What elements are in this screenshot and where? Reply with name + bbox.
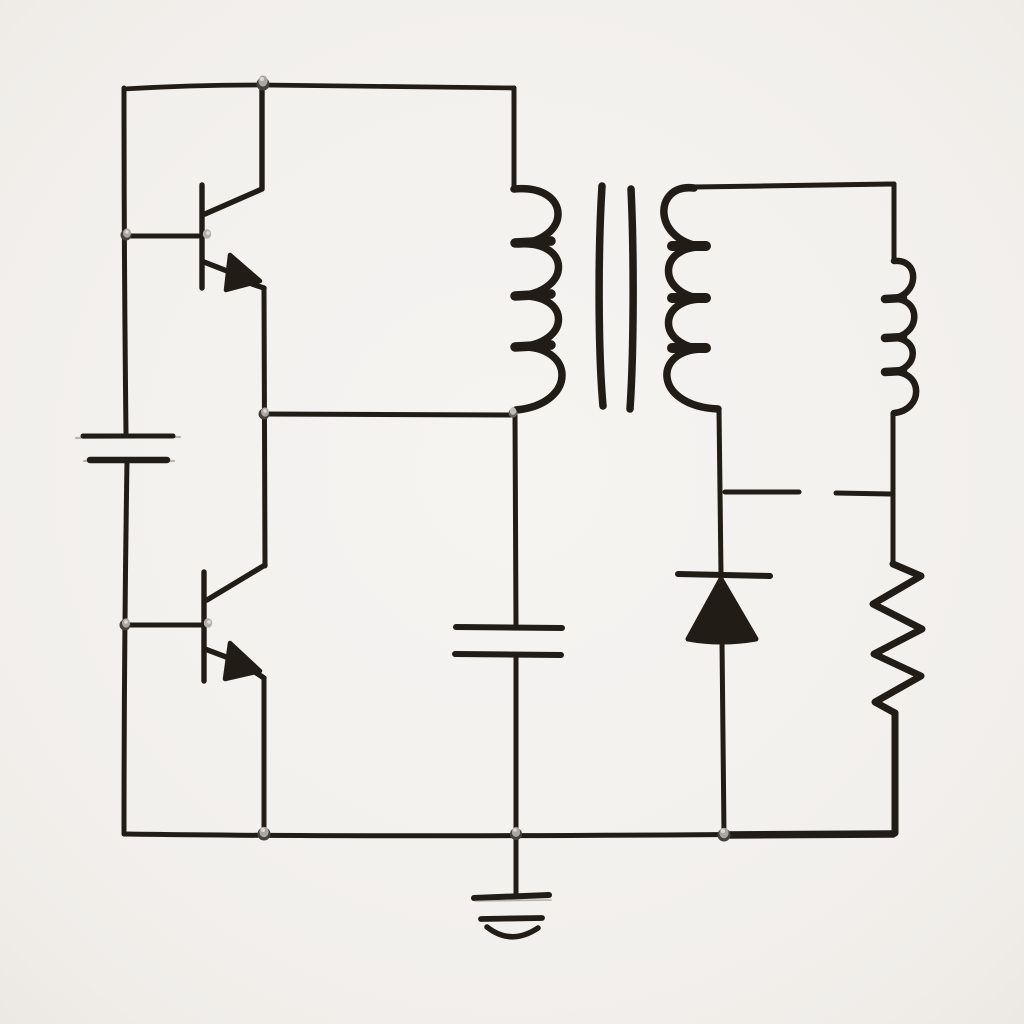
inductor L1 bbox=[891, 261, 916, 413]
junction at left rail and Q1 base bbox=[121, 228, 132, 240]
wire secondary top to right rail bbox=[694, 184, 894, 187]
wire bottom rail bbox=[124, 833, 895, 836]
transformer T1 secondary winding bbox=[664, 188, 718, 409]
wire Q2 base bbox=[125, 623, 203, 628]
wire transformer primary top lead bbox=[512, 88, 517, 189]
junction at bottom rail and diode branch bbox=[718, 828, 731, 842]
wire diode branch lower bbox=[722, 641, 724, 834]
capacitor C1 bbox=[455, 627, 562, 655]
wire left rail upper bbox=[124, 88, 126, 433]
junction at bottom rail and Q2 emitter bbox=[258, 827, 271, 841]
junction at Q2 base bar bbox=[204, 618, 212, 628]
inductor L1 notch blobs bbox=[885, 298, 903, 372]
wire right rail lower bbox=[892, 713, 899, 833]
junction at Q1 base bar bbox=[203, 229, 211, 239]
junction at top rail and Q1 collector bbox=[257, 76, 270, 91]
transformer T1 core bbox=[599, 186, 633, 409]
wire right rail middle bbox=[891, 413, 896, 564]
wire left rail lower bbox=[124, 461, 127, 834]
wire Q2 emitter vertical bbox=[262, 678, 267, 834]
junction at middle wire and primary bottom bbox=[509, 407, 518, 417]
diode D1 bbox=[678, 574, 770, 642]
junction at middle wire and Q1/Q2 vertical bbox=[259, 407, 270, 419]
wire diode branch upper bbox=[719, 409, 721, 574]
wire Q1 emitter to Q2 collector vertical bbox=[264, 289, 265, 566]
wire ground stem bbox=[514, 834, 519, 896]
wire top rail bbox=[124, 85, 514, 89]
battery B1 bbox=[76, 436, 180, 461]
junction at bottom rail and ground stem bbox=[510, 827, 522, 840]
wire right rail upper bbox=[892, 184, 897, 261]
wire capacitor C1 top lead bbox=[515, 415, 516, 625]
wire bottom rail right thicker overdraw bbox=[724, 834, 893, 835]
transformer T1 primary winding bbox=[514, 189, 562, 410]
resistor R1 bbox=[873, 564, 922, 713]
transformer T1 primary notch blobs bbox=[515, 241, 551, 347]
transformer T1 secondary notch blobs bbox=[672, 246, 706, 348]
wire capacitor C2 left segment bbox=[725, 490, 799, 495]
wire Q1 base bbox=[124, 234, 201, 239]
wire middle horizontal bbox=[264, 414, 512, 415]
transistor Q2 bbox=[204, 565, 265, 681]
ground bbox=[474, 895, 551, 937]
transistor Q1 bbox=[202, 86, 264, 290]
junction at left rail and Q2 base bbox=[120, 618, 131, 630]
wire capacitor C1 bottom lead bbox=[514, 655, 519, 834]
wire capacitor C2 right segment bbox=[836, 493, 890, 494]
